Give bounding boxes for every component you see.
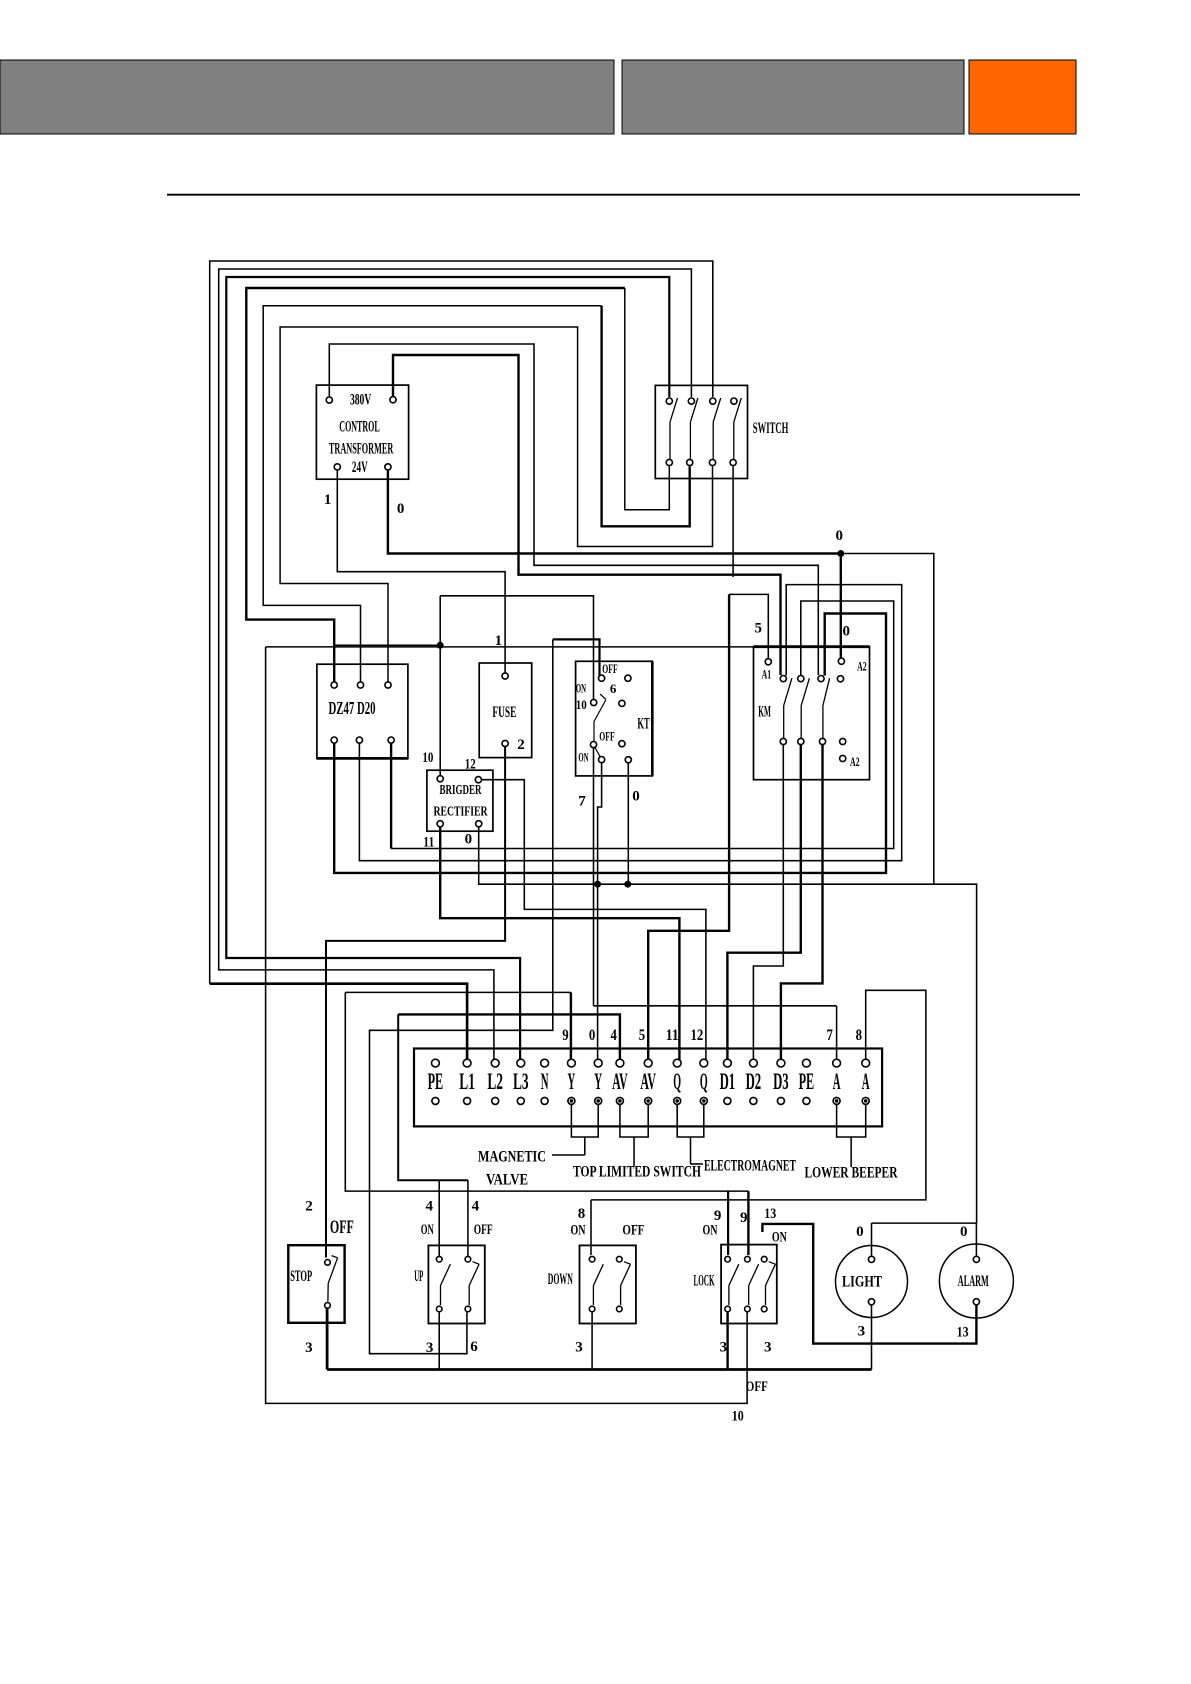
svg-text:Y: Y <box>568 1069 576 1094</box>
svg-text:6: 6 <box>610 681 617 696</box>
svg-text:OFF: OFF <box>746 1379 768 1395</box>
svg-text:3: 3 <box>858 1324 866 1340</box>
svg-text:0: 0 <box>589 1027 595 1044</box>
svg-text:ON: ON <box>576 681 587 696</box>
svg-text:9: 9 <box>740 1210 748 1226</box>
svg-text:A2: A2 <box>857 658 867 673</box>
svg-text:ON: ON <box>578 750 589 765</box>
svg-text:10: 10 <box>422 750 433 766</box>
svg-text:A: A <box>862 1069 870 1094</box>
svg-text:1: 1 <box>495 633 503 649</box>
svg-text:N: N <box>541 1069 549 1094</box>
svg-text:DZ47 D20: DZ47 D20 <box>328 698 375 718</box>
svg-text:13: 13 <box>764 1206 776 1222</box>
svg-text:RECTIFIER: RECTIFIER <box>434 805 489 820</box>
svg-text:0: 0 <box>632 789 640 805</box>
svg-text:3: 3 <box>305 1340 313 1356</box>
svg-text:L2: L2 <box>487 1069 503 1094</box>
svg-text:0: 0 <box>856 1224 864 1240</box>
svg-text:BRIGDER: BRIGDER <box>440 783 483 798</box>
svg-text:12: 12 <box>465 757 476 773</box>
svg-text:MAGNETIC: MAGNETIC <box>478 1149 546 1166</box>
svg-text:Q: Q <box>700 1069 708 1094</box>
svg-text:L3: L3 <box>513 1069 529 1094</box>
svg-text:4: 4 <box>472 1199 480 1215</box>
svg-text:10: 10 <box>576 697 587 712</box>
svg-text:OFF: OFF <box>602 661 617 676</box>
svg-text:3: 3 <box>575 1340 583 1356</box>
svg-text:0: 0 <box>836 528 844 544</box>
svg-text:SWITCH: SWITCH <box>753 420 789 437</box>
svg-text:7: 7 <box>578 794 586 810</box>
svg-text:4: 4 <box>611 1027 617 1044</box>
svg-text:0: 0 <box>960 1224 968 1240</box>
svg-text:13: 13 <box>957 1325 969 1341</box>
svg-text:D3: D3 <box>773 1069 789 1094</box>
svg-text:3: 3 <box>720 1340 728 1356</box>
svg-text:STOP: STOP <box>290 1268 312 1285</box>
svg-text:ELECTROMAGNET: ELECTROMAGNET <box>704 1158 796 1175</box>
svg-text:LOCK: LOCK <box>694 1273 715 1290</box>
svg-text:ON: ON <box>571 1223 586 1239</box>
svg-text:KM: KM <box>758 704 771 721</box>
svg-text:ON: ON <box>772 1230 787 1246</box>
svg-text:DOWN: DOWN <box>548 1271 573 1288</box>
svg-text:0: 0 <box>842 624 850 640</box>
svg-text:LIGHT: LIGHT <box>842 1274 882 1291</box>
svg-text:PE: PE <box>799 1069 815 1094</box>
svg-text:ON: ON <box>703 1223 718 1239</box>
svg-text:Y: Y <box>594 1069 602 1094</box>
svg-text:5: 5 <box>639 1027 645 1044</box>
svg-text:1: 1 <box>324 492 332 508</box>
svg-text:TOP LIMITED SWITCH: TOP LIMITED SWITCH <box>573 1164 701 1181</box>
svg-text:PE: PE <box>428 1069 444 1094</box>
svg-text:A1: A1 <box>762 667 772 682</box>
svg-text:0: 0 <box>465 832 473 848</box>
svg-text:11: 11 <box>423 835 434 851</box>
svg-text:7: 7 <box>827 1027 833 1044</box>
svg-text:D2: D2 <box>746 1069 762 1094</box>
svg-text:6: 6 <box>470 1339 478 1355</box>
svg-text:OFF: OFF <box>599 729 614 744</box>
svg-text:A2: A2 <box>850 754 860 769</box>
svg-text:OFF: OFF <box>474 1222 493 1238</box>
svg-text:8: 8 <box>578 1206 586 1222</box>
svg-text:CONTROL: CONTROL <box>339 419 379 436</box>
svg-text:FUSE: FUSE <box>492 704 516 721</box>
svg-text:24V: 24V <box>352 459 368 476</box>
svg-text:2: 2 <box>517 737 525 753</box>
svg-text:5: 5 <box>755 621 763 637</box>
svg-text:AV: AV <box>612 1069 628 1094</box>
svg-text:4: 4 <box>425 1199 433 1215</box>
svg-text:OFF: OFF <box>622 1223 644 1239</box>
svg-text:ALARM: ALARM <box>958 1273 989 1290</box>
svg-text:0: 0 <box>397 501 405 517</box>
svg-text:2: 2 <box>305 1199 313 1215</box>
svg-text:9: 9 <box>562 1027 568 1044</box>
svg-text:TRANSFORMER: TRANSFORMER <box>329 441 394 458</box>
svg-text:11: 11 <box>666 1027 679 1044</box>
svg-text:380V: 380V <box>350 392 372 409</box>
svg-text:3: 3 <box>764 1340 772 1356</box>
svg-text:ON: ON <box>421 1222 434 1238</box>
svg-text:AV: AV <box>640 1069 656 1094</box>
svg-text:VALVE: VALVE <box>486 1172 528 1189</box>
svg-text:8: 8 <box>856 1027 862 1044</box>
svg-text:A: A <box>833 1069 841 1094</box>
svg-text:KT: KT <box>637 716 649 733</box>
svg-text:L1: L1 <box>459 1069 475 1094</box>
svg-text:OFF: OFF <box>330 1217 354 1238</box>
svg-text:Q: Q <box>673 1069 681 1094</box>
svg-text:12: 12 <box>691 1027 704 1044</box>
svg-text:D1: D1 <box>720 1069 736 1094</box>
svg-text:UP: UP <box>414 1268 423 1285</box>
svg-text:3: 3 <box>426 1340 434 1356</box>
svg-text:LOWER BEEPER: LOWER BEEPER <box>805 1165 898 1182</box>
svg-text:10: 10 <box>732 1409 744 1425</box>
